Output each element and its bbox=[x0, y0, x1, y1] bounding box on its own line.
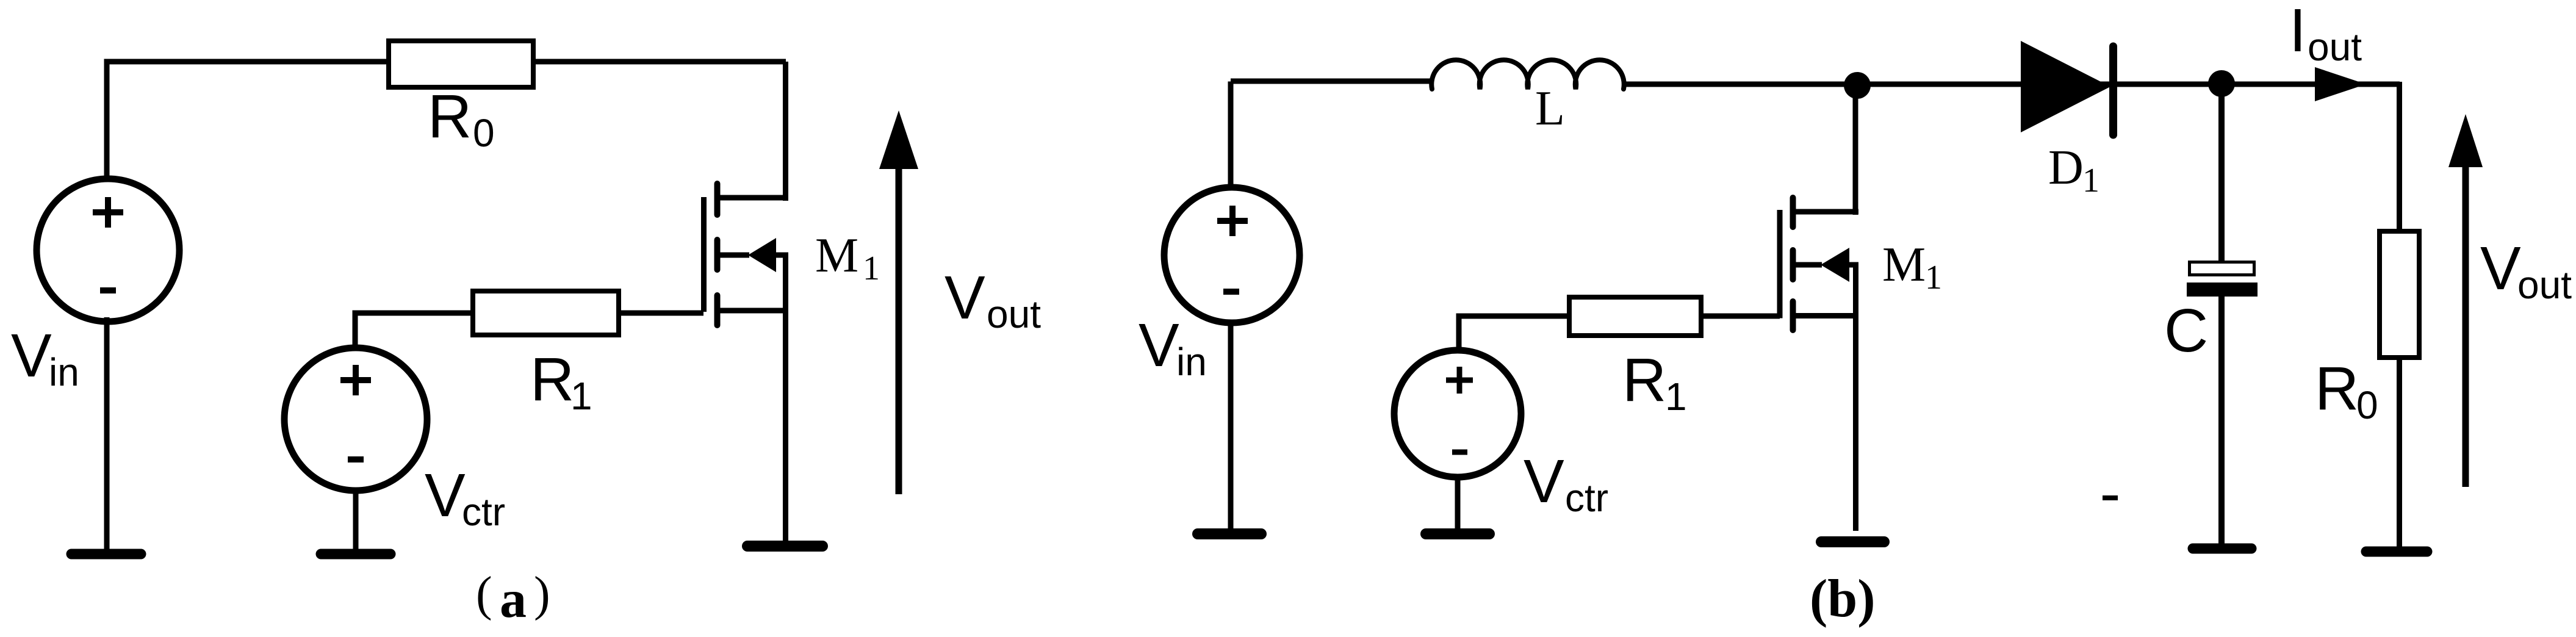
wire source vertical (a) bbox=[783, 311, 788, 542]
wire Vctr(b) bottom bbox=[1455, 477, 1461, 528]
ground M1 (b) bbox=[1821, 536, 1884, 547]
current arrow Iout bbox=[2315, 67, 2366, 101]
svg-text:out: out bbox=[987, 292, 1041, 336]
transistor M1 (a) bbox=[704, 184, 789, 325]
wire top rail (a) bbox=[107, 59, 786, 65]
wire R1 left (a) bbox=[353, 311, 470, 350]
svg-text:V: V bbox=[425, 461, 466, 530]
resistor R1 (b) bbox=[1569, 297, 1701, 336]
wire gate (b) bbox=[1704, 314, 1780, 319]
svg-text:V: V bbox=[1139, 311, 1179, 380]
diode D1 bbox=[2021, 41, 2114, 135]
svg-text:in: in bbox=[49, 350, 79, 394]
voltage source Vin (b) bbox=[1164, 187, 1300, 323]
label D1 bbox=[2048, 141, 2099, 200]
svg-text:V: V bbox=[2480, 234, 2521, 303]
svg-text:R: R bbox=[2315, 354, 2359, 423]
transistor M1 (b) bbox=[1780, 198, 1858, 330]
svg-text:M: M bbox=[1882, 238, 1926, 292]
voltage source Vin (a) bbox=[37, 179, 179, 322]
svg-text:(b): (b) bbox=[1810, 569, 1876, 628]
label R1 (a) bbox=[530, 345, 592, 418]
wire R0(b) bottom bbox=[2397, 358, 2402, 547]
node junction dot 2 bbox=[2208, 70, 2235, 97]
ground M1 (a) bbox=[747, 541, 822, 552]
wire top rail right (b) bbox=[1622, 82, 2400, 87]
svg-text:C: C bbox=[2164, 297, 2208, 365]
wire Vin(b) bottom bbox=[1228, 320, 1234, 529]
svg-text:out: out bbox=[2308, 25, 2362, 69]
label Vctr (a) bbox=[425, 461, 505, 534]
resistor R0 (b) bbox=[2380, 231, 2419, 358]
svg-text:1: 1 bbox=[1665, 375, 1687, 419]
label Vin (a) bbox=[11, 322, 79, 394]
label Vin (b) bbox=[1139, 311, 1207, 384]
wire capacitor bottom (b) bbox=[2218, 295, 2225, 544]
wire R0(b) top bbox=[2397, 82, 2402, 231]
ground R0 (b) bbox=[2366, 547, 2427, 557]
wire Vin(a) bottom bbox=[104, 317, 110, 549]
label Vctr (b) bbox=[1524, 447, 1608, 520]
label R0 (a) bbox=[428, 82, 495, 155]
node junction dot 1 bbox=[1844, 72, 1871, 99]
svg-text:I: I bbox=[2289, 0, 2306, 65]
wire Vctr bottom (a) bbox=[353, 488, 359, 549]
svg-text:): ) bbox=[534, 567, 550, 621]
label M1 (a) bbox=[815, 229, 880, 287]
svg-text:(: ( bbox=[476, 567, 492, 621]
svg-text:1: 1 bbox=[1925, 259, 1942, 297]
svg-text:V: V bbox=[1524, 447, 1564, 516]
svg-text:0: 0 bbox=[2356, 383, 2378, 427]
label R1 (b) bbox=[1622, 346, 1687, 419]
svg-text:a: a bbox=[500, 570, 527, 629]
resistor R1 (a) bbox=[473, 291, 619, 335]
svg-text:1: 1 bbox=[2082, 162, 2099, 200]
arrow Vout (a) bbox=[879, 110, 918, 494]
label R0 (b) bbox=[2315, 354, 2378, 427]
svg-text:V: V bbox=[944, 264, 985, 332]
label Vout (b) bbox=[2480, 234, 2572, 307]
wire Vctr(b) riser bbox=[1456, 314, 1567, 350]
label M1 (b) bbox=[1882, 238, 1942, 297]
svg-text:R: R bbox=[530, 345, 574, 414]
wire Vin(b) top bbox=[1228, 82, 1234, 191]
svg-text:D: D bbox=[2048, 141, 2084, 195]
svg-text:ctr: ctr bbox=[462, 490, 505, 534]
svg-text:0: 0 bbox=[473, 111, 495, 155]
svg-text:M: M bbox=[815, 229, 858, 283]
label Iout bbox=[2289, 0, 2362, 69]
voltage source Vctr (b) bbox=[1394, 350, 1521, 477]
resistor R0 (a) bbox=[389, 41, 533, 87]
svg-text:out: out bbox=[2517, 263, 2572, 307]
svg-text:1: 1 bbox=[570, 374, 592, 418]
svg-text:R: R bbox=[1622, 346, 1666, 414]
voltage source Vctr (a) bbox=[284, 348, 427, 491]
wire top rail left (b) bbox=[1231, 79, 1433, 84]
ground Vctr (b) bbox=[1426, 528, 1489, 539]
wire source vertical (b) bbox=[1853, 315, 1858, 531]
arrow Vout (b) bbox=[2448, 114, 2483, 487]
svg-text:V: V bbox=[11, 322, 52, 390]
ground Vin (a) bbox=[71, 549, 141, 560]
ground C (b) bbox=[2193, 544, 2251, 554]
ground Vctr (a) bbox=[321, 549, 390, 560]
wire drain vertical (b) bbox=[1853, 84, 1858, 215]
inductor L bbox=[1431, 60, 1624, 89]
wire capacitor top (b) bbox=[2218, 84, 2225, 262]
svg-text:R: R bbox=[428, 82, 472, 151]
wire gate (a) bbox=[621, 311, 703, 316]
ground Vin (b) bbox=[1198, 528, 1261, 539]
wire drain vertical (a) bbox=[783, 62, 788, 201]
svg-text:L: L bbox=[1535, 82, 1565, 135]
svg-text:in: in bbox=[1176, 340, 1207, 384]
capacitor C bbox=[2187, 262, 2258, 297]
svg-text:1: 1 bbox=[863, 250, 880, 287]
label capacitor minus bbox=[2103, 495, 2118, 500]
wire Vin(a) top bbox=[104, 59, 110, 181]
label Vout (a) bbox=[944, 264, 1041, 336]
svg-text:ctr: ctr bbox=[1565, 476, 1608, 520]
